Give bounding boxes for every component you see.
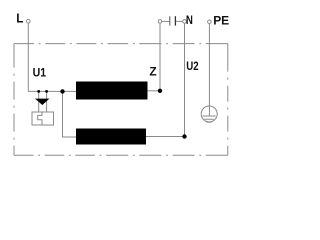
node U2: [182, 134, 186, 138]
wire Z up to capacitor: [159, 23, 161, 89]
protective earth symbol (bars): [202, 116, 215, 122]
thermal actuator triangle: [35, 99, 50, 105]
svg-text:Z: Z: [149, 65, 156, 79]
terminal N: [183, 20, 187, 24]
svg-text:N: N: [186, 13, 193, 27]
node Z: [158, 89, 162, 93]
svg-text:PE: PE: [213, 13, 229, 27]
capacitor C lead left: [162, 20, 169, 22]
svg-text:L: L: [16, 10, 23, 25]
node (protector pin 2 junction): [45, 90, 48, 93]
node (protector pin 1 junction): [37, 90, 40, 93]
protective earth symbol (circle): [201, 106, 217, 122]
wire U1 horizontal to top winding: [28, 90, 76, 92]
wire from node to bottom winding: [63, 91, 77, 137]
svg-text:U1: U1: [33, 65, 47, 79]
capacitor C plate left: [169, 16, 171, 25]
capacitor C terminal left: [158, 20, 162, 24]
enclosure boundary (motor housing, chain line): [14, 44, 228, 156]
wire protector pin 1: [38, 91, 40, 112]
winding (top bar): [76, 82, 148, 100]
capacitor C plate right: [174, 16, 176, 25]
node (bottom winding feed junction): [60, 89, 64, 93]
winding (bottom bar): [76, 129, 146, 145]
terminal PE: [208, 20, 212, 24]
wire N down (U2) to node: [184, 23, 186, 136]
wire PE down to earth: [208, 24, 210, 116]
thermal protector F1 (box): [32, 112, 54, 125]
thermal protector F1 (bimetal step): [38, 112, 42, 125]
terminal L: [27, 19, 31, 23]
capacitor C lead right: [176, 20, 183, 22]
wire top winding to node Z: [148, 90, 161, 92]
wire protector pin 2: [46, 91, 48, 112]
wire L down to U1 node: [27, 23, 29, 91]
svg-text:U2: U2: [186, 59, 199, 73]
wire bottom winding to node U2: [146, 136, 185, 138]
